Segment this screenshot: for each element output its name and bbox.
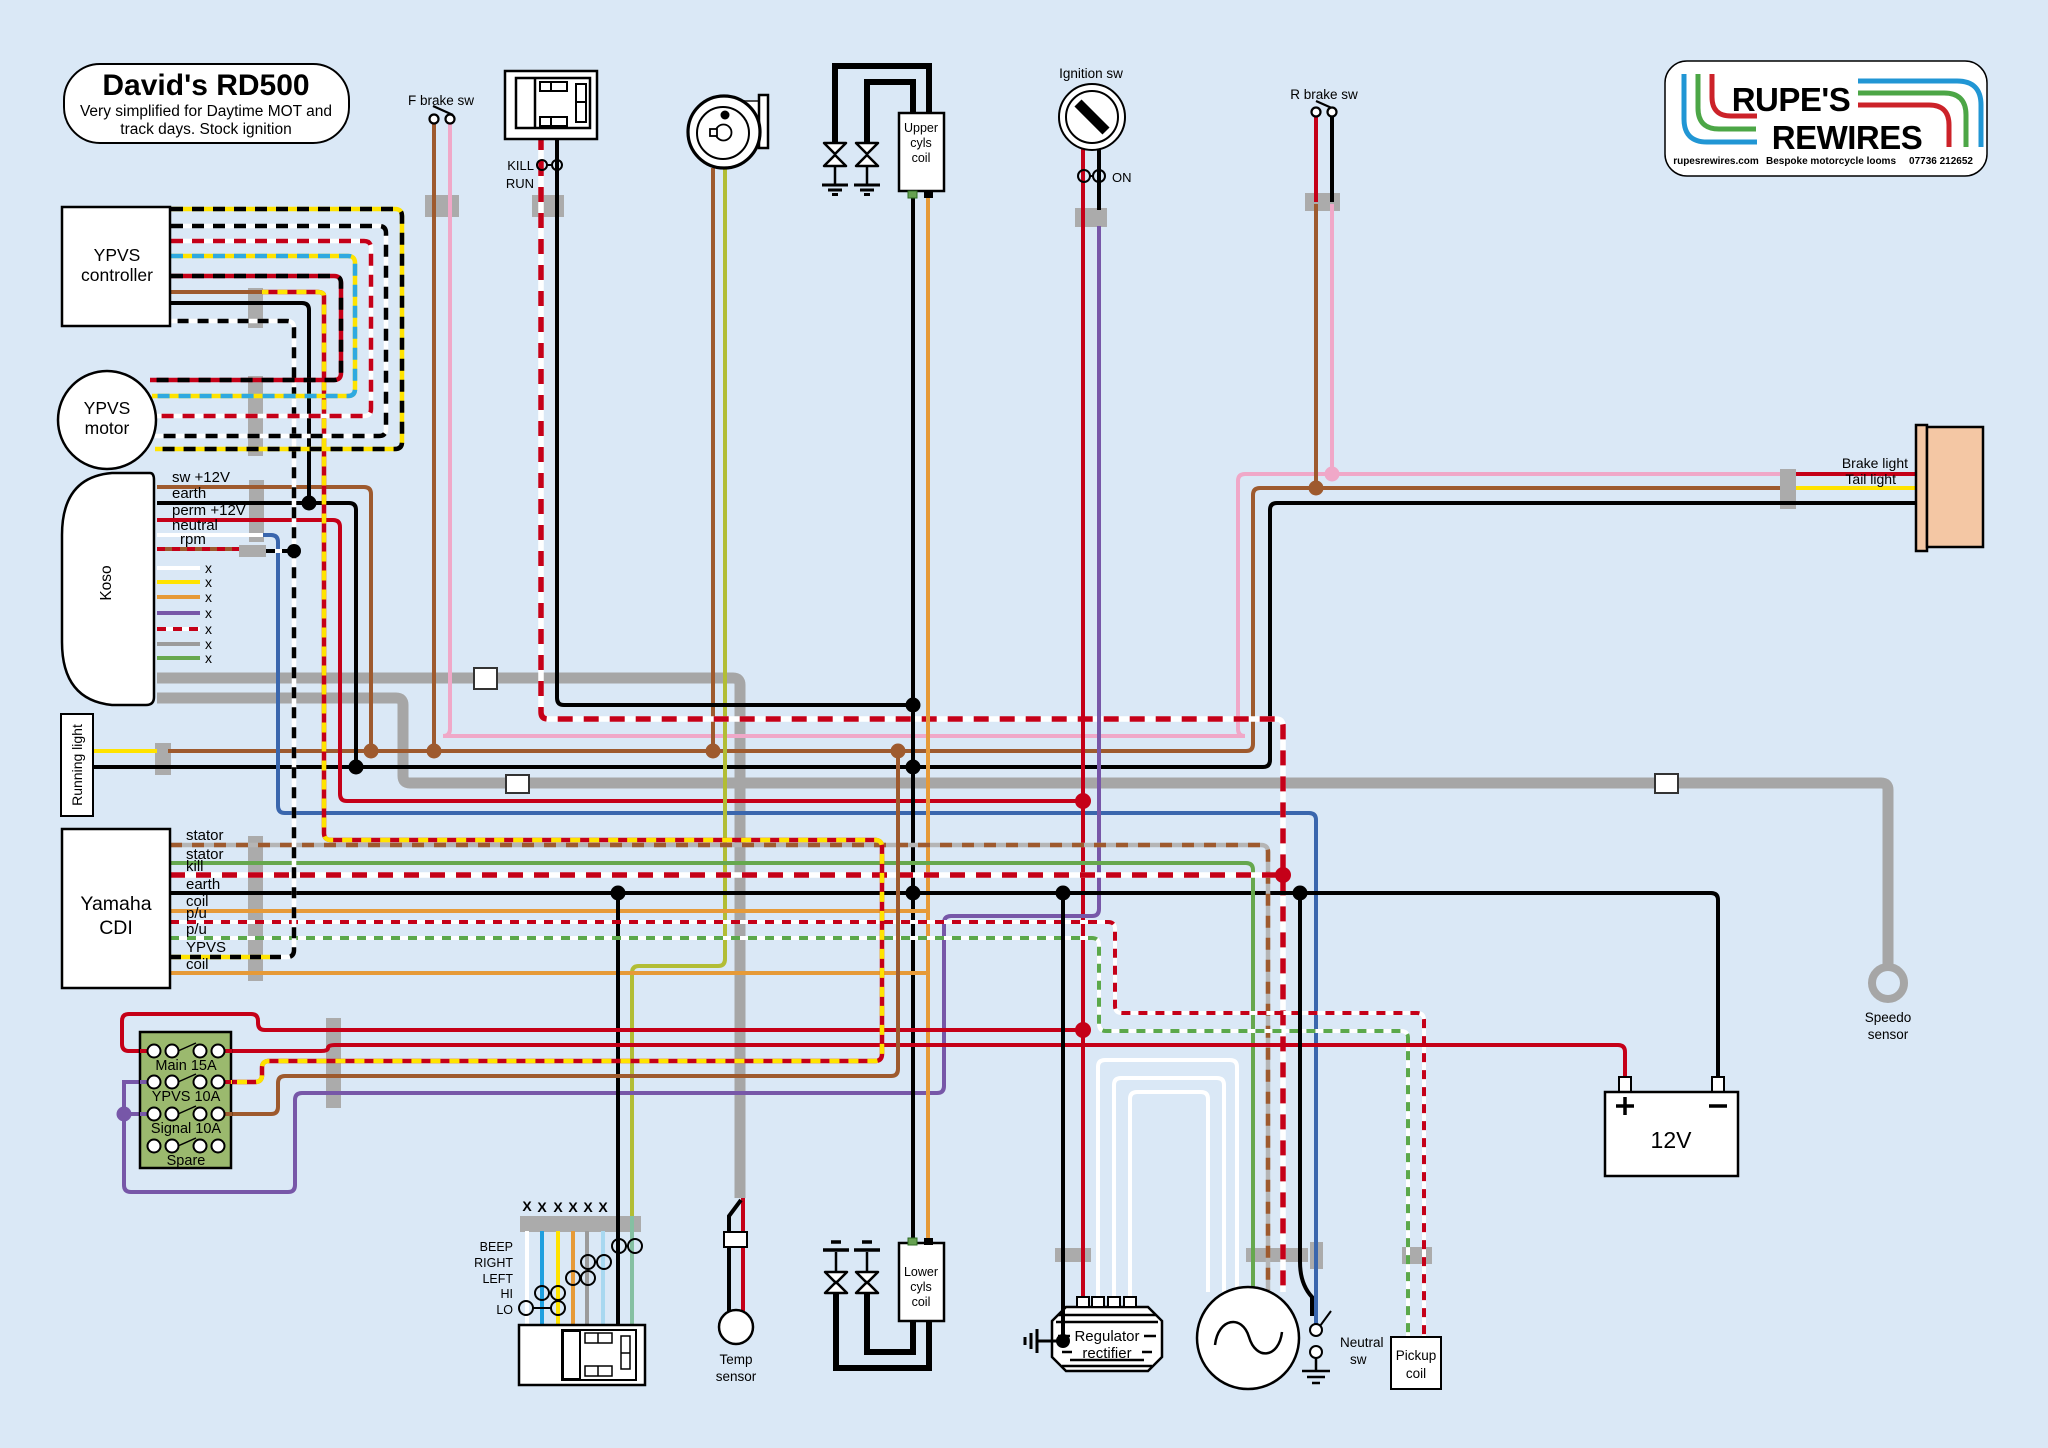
svg-text:YPVS: YPVS [94, 245, 141, 265]
wire YPVS bundle pin3 red/white [154, 241, 371, 416]
svg-text:Brake light: Brake light [1842, 455, 1908, 471]
junction red perm/ignition [1075, 793, 1091, 809]
Koso x labels [205, 560, 212, 666]
wire CDI YPVS black/yellow segment [170, 955, 270, 960]
svg-text:Main 15A: Main 15A [155, 1058, 217, 1074]
wire headlight yellow [556, 1231, 560, 1325]
svg-text:BEEP: BEEP [480, 1240, 513, 1254]
wire Koso neutral white stub [157, 533, 263, 537]
svg-text:Neutral: Neutral [1340, 1335, 1384, 1350]
svg-text:X: X [568, 1199, 578, 1215]
tachometer [735, 101, 762, 145]
junction purple fuse [117, 1107, 132, 1122]
junction brown x713 [706, 744, 721, 759]
wire purple stub signal fuse [124, 1112, 148, 1116]
connector fuse box outputs [326, 1018, 341, 1108]
wire fuse stubs overlay [140, 1049, 232, 1053]
svg-text:cyls: cyls [910, 136, 932, 150]
wire RUN black [557, 135, 913, 705]
wire alternator black [1300, 893, 1312, 1316]
KILL/RUN switch housing [505, 71, 597, 139]
svg-text:X: X [583, 1199, 593, 1215]
svg-text:12V: 12V [1651, 1127, 1693, 1153]
connector YPVS controller pins 6-8 [248, 288, 263, 328]
wire purple ignition to fuses [124, 226, 1099, 1192]
svg-text:rectifier: rectifier [1082, 1345, 1131, 1362]
wire neutral blue (Koso to neutral sw) [263, 535, 1316, 1326]
fuse box [140, 1032, 231, 1168]
title bubble [64, 64, 349, 143]
svg-text:RUN: RUN [506, 176, 534, 191]
svg-text:kill: kill [186, 858, 204, 875]
svg-text:x: x [205, 589, 212, 605]
wire regulator earth overlay [1061, 1307, 1065, 1341]
wire Koso perm+12V red [157, 520, 1083, 801]
junction black Koso earth x356 [349, 760, 364, 775]
lower cyls coil goalpost inner [867, 1291, 913, 1352]
wire Koso earth black [157, 503, 356, 767]
junction brown x898 [891, 744, 906, 759]
svg-text:X: X [598, 1199, 608, 1215]
svg-text:Yamaha: Yamaha [80, 893, 151, 915]
junction pink R brake [1325, 467, 1340, 482]
logo Rupe's Rewires [1665, 61, 1987, 176]
svg-text:LEFT: LEFT [482, 1272, 513, 1286]
wire Koso x stub red/white dashed [157, 627, 200, 631]
wire alternator white phase 1 [1098, 1060, 1237, 1300]
wire KILL red/white dashed (kill switch to alternator) [541, 135, 1283, 1292]
wire YPVS fuse red/yellow dashed (controller supply) [218, 292, 882, 1082]
pickup coil box [1391, 1337, 1441, 1389]
wire YPVS black/white dashed vertical (CDI to controller pin8) [171, 321, 294, 957]
wire headlight teal segment [630, 1216, 634, 1325]
wire CDI coil orange upper [170, 909, 928, 913]
svg-text:x: x [205, 621, 212, 637]
wire headlight gray [585, 1231, 589, 1325]
wire controller pin7 black [171, 303, 309, 503]
wire YPVS bundle pin5 red/black [150, 276, 341, 380]
upper ground right [854, 185, 880, 195]
svg-text:x: x [205, 574, 212, 590]
svg-text:sensor: sensor [716, 1369, 757, 1384]
wire running light black (tail light earth) [93, 503, 1916, 767]
wire thick gray speedo harness 1 (Koso to temp sensor) [157, 678, 740, 1198]
svg-text:coil: coil [186, 956, 209, 973]
upper cyls coil box [899, 113, 944, 191]
wire brown main feed (running light to tail light) [168, 488, 1780, 751]
junction black regulator ground [1056, 1334, 1070, 1348]
wire headlight blue [540, 1231, 544, 1325]
svg-text:rpm: rpm [180, 531, 206, 548]
junction black pin7 [302, 496, 317, 511]
wire Koso x stub yellow [157, 580, 200, 584]
wire coils orange vertical [926, 195, 930, 1240]
wire CDI p/u1 red/white dashed (to pickup coil) [170, 922, 1424, 1337]
connector KILL/RUN [532, 195, 564, 217]
junction black coil/running light [906, 760, 921, 775]
wire Koso sw+12V brown [157, 487, 371, 751]
svg-text:sw: sw [1350, 1352, 1367, 1367]
junction red kill/CDI [1275, 867, 1291, 883]
battery 12V [1619, 1077, 1631, 1093]
lower ground right [854, 1242, 880, 1250]
svg-text:Lower: Lower [904, 1265, 938, 1279]
svg-text:X: X [522, 1198, 532, 1214]
svg-text:David's RD500: David's RD500 [102, 69, 309, 102]
CDI pin labels [186, 827, 226, 973]
regulator rectifier [1052, 1307, 1162, 1371]
upper spark gap right [856, 143, 878, 166]
svg-text:KILL: KILL [507, 158, 534, 173]
tail light [1916, 425, 1927, 551]
svg-text:X: X [553, 1199, 563, 1215]
lower spark gap right [856, 1272, 878, 1293]
wire CDI p/u2 green/white dashed (to pickup coil) [170, 938, 1408, 1337]
upper cyls coil goalpost inner [867, 82, 913, 145]
wire temp sensor black [729, 1200, 741, 1312]
svg-text:Signal 10A: Signal 10A [151, 1121, 221, 1137]
svg-text:Bespoke motorcycle looms: Bespoke motorcycle looms [1766, 156, 1896, 167]
svg-text:x: x [205, 605, 212, 621]
wire tacho olive to headlight [632, 168, 725, 1231]
svg-text:Very simplified for Daytime MO: Very simplified for Daytime MOT and [80, 103, 332, 120]
connector alternator [1246, 1248, 1308, 1262]
wire alternator white phase 2 [1114, 1078, 1224, 1300]
junction brown R brake [1309, 481, 1324, 496]
headlight housing [519, 1325, 645, 1385]
wire tail brake red [1796, 472, 1916, 476]
connector tail light [1780, 469, 1796, 509]
svg-text:RIGHT: RIGHT [474, 1256, 513, 1270]
svg-text:YPVS: YPVS [84, 398, 131, 418]
wire headlight white [525, 1231, 529, 1325]
svg-text:coil: coil [912, 1295, 931, 1309]
connector Koso main pins [249, 480, 264, 542]
wire regulator black earth drop [1061, 893, 1065, 1341]
wire fuse main upper red (battery feed to ignition sw) [122, 1014, 1083, 1051]
wire Koso x stub white [157, 566, 200, 570]
wire Koso x stub orange [157, 595, 200, 599]
svg-text:rupesrewires.com: rupesrewires.com [1673, 156, 1759, 167]
lower cyls coil goalpost outer [836, 1291, 929, 1368]
connector R brake sw [1305, 193, 1340, 211]
wire ignition red main [1081, 148, 1085, 1300]
wire signal fuse brown [218, 751, 898, 1114]
wire R brake brown lower [1314, 204, 1318, 488]
svg-text:controller: controller [81, 265, 153, 285]
wire headlight orange [571, 1231, 575, 1325]
fuse Spare [148, 1140, 225, 1153]
svg-text:YPVS 10A: YPVS 10A [152, 1089, 221, 1105]
svg-text:YPVS: YPVS [186, 939, 226, 956]
svg-text:sensor: sensor [1868, 1027, 1909, 1042]
connector white on gray harness 2 right [1655, 774, 1678, 793]
upper spark gap left [824, 143, 846, 166]
alternator [1197, 1287, 1299, 1389]
connector running light [155, 743, 171, 775]
wire Koso x stub green [157, 656, 200, 660]
svg-text:earth: earth [172, 485, 206, 502]
wire CDI stator1 brown/gray dashed (to alternator) [170, 845, 1268, 1290]
wire ignition black stub [1097, 148, 1101, 210]
connector regulator [1055, 1248, 1091, 1262]
svg-text:REWIRES: REWIRES [1772, 119, 1923, 156]
wire YPVS bundle pin1 black/yellow [155, 209, 402, 449]
connector F brake sw [425, 195, 459, 217]
svg-text:CDI: CDI [99, 917, 133, 939]
wire CDI earth black main (to battery minus) [170, 893, 1718, 1077]
svg-text:earth: earth [186, 876, 220, 893]
wire R brake black upper [1330, 116, 1334, 202]
Yamaha CDI box [62, 829, 170, 988]
junction black earth regulator [1056, 886, 1071, 901]
wire headlight earth drop black [616, 893, 620, 1325]
svg-text:RUPE'S: RUPE'S [1732, 81, 1851, 118]
svg-text:x: x [205, 650, 212, 666]
junction brown x371 [364, 744, 379, 759]
junction black regulator earth [1056, 1334, 1070, 1348]
wire YPVS bundle pin4 cyan/yellow [152, 256, 355, 396]
wire rpm link black/white dashed [266, 549, 294, 553]
neutral switch [1310, 1324, 1322, 1336]
wire alternator white phase 3 [1130, 1092, 1208, 1300]
connector white on gray harness 2 left [506, 775, 529, 793]
lower spark gap left [825, 1272, 847, 1293]
ignition ON contacts [1078, 170, 1090, 182]
connector ignition sw [1075, 208, 1107, 227]
connector headlight bar [520, 1216, 641, 1232]
connector Yamaha CDI [248, 836, 263, 981]
junction brown x434 [427, 744, 442, 759]
junction black earth alternator [1293, 886, 1308, 901]
svg-text:coil: coil [912, 151, 931, 165]
wire R brake pink lower [1330, 204, 1334, 474]
junction black RUN/coil [906, 698, 921, 713]
YPVS controller box [62, 207, 170, 326]
wire tail yellow [1796, 486, 1916, 490]
wire Koso x stub gray [157, 642, 200, 646]
svg-text:Temp: Temp [719, 1352, 752, 1367]
wire controller pin6 brown stub [171, 290, 262, 294]
svg-text:Spare: Spare [167, 1153, 206, 1169]
upper coil stubs [908, 191, 917, 198]
connector pickup coil [1402, 1247, 1432, 1264]
wire Koso x stub purple [157, 611, 200, 615]
wire temp sensor red [741, 1198, 745, 1312]
connector neutral sw [1310, 1242, 1323, 1269]
lower coil stubs [908, 1238, 917, 1245]
svg-text:cyls: cyls [910, 1280, 932, 1294]
svg-text:HI: HI [501, 1287, 514, 1301]
svg-text:sw +12V: sw +12V [172, 469, 230, 486]
fuse Signal 10A [148, 1108, 225, 1121]
headlight X marks [522, 1198, 608, 1215]
wire CDI stator2 green (to alternator) [170, 863, 1253, 1292]
connector YPVS motor bundle [248, 376, 263, 456]
svg-text:Ignition sw: Ignition sw [1059, 66, 1123, 81]
wire thick gray speedo harness 2 (Koso to speedo sensor) [157, 698, 1888, 966]
svg-text:Koso: Koso [98, 565, 115, 600]
fuse YPVS 10A [148, 1076, 225, 1089]
wire Koso rpm stub brown/red [157, 547, 239, 551]
svg-text:track days. Stock ignition: track days. Stock ignition [120, 121, 291, 138]
fuse Main 15A [148, 1045, 225, 1058]
svg-text:Speedo: Speedo [1865, 1010, 1912, 1025]
lower ground left [823, 1242, 849, 1250]
wire F brake pink (to tail light brake feed) [443, 122, 1780, 736]
svg-text:Pickup: Pickup [1396, 1348, 1437, 1363]
connector Koso rpm [239, 545, 266, 557]
junction red fuse/ignition [1075, 1022, 1091, 1038]
speedo sensor [1872, 967, 1904, 999]
svg-text:LO: LO [496, 1303, 513, 1317]
wire coils black vertical [911, 195, 915, 1240]
svg-text:07736 212652: 07736 212652 [1909, 156, 1973, 167]
wire running light yellow [93, 749, 157, 753]
svg-text:Running light: Running light [69, 724, 85, 806]
lower cyls coil box [899, 1243, 944, 1321]
svg-text:coil: coil [1406, 1366, 1426, 1381]
wire CDI kill red/white dashed [170, 872, 1283, 878]
Koso unit [62, 473, 154, 705]
svg-text:p/u: p/u [186, 905, 207, 922]
svg-text:ON: ON [1112, 170, 1132, 185]
svg-text:R brake sw: R brake sw [1290, 87, 1358, 102]
junction black earth headlight [611, 886, 626, 901]
svg-text:X: X [537, 1199, 547, 1215]
regulator ground [1037, 1340, 1063, 1343]
regulator top pins [1077, 1297, 1089, 1307]
svg-text:Upper: Upper [904, 121, 938, 135]
Running light box [61, 714, 93, 816]
junction black rpm link [287, 544, 301, 558]
wire headlight light blue [601, 1231, 605, 1325]
wire R brake red upper [1314, 116, 1318, 202]
junction black earth coil [906, 886, 921, 901]
temp sensor [724, 1232, 747, 1247]
wire fuse main lower red (to battery +) [218, 1045, 1625, 1077]
svg-text:motor: motor [85, 418, 130, 438]
upper ground left [822, 185, 848, 195]
connector white on gray harness 1 [474, 668, 497, 689]
svg-text:F brake sw: F brake sw [408, 93, 474, 108]
wire YPVS bundle pin2 black/white [155, 226, 386, 436]
YPVS motor circle [58, 371, 156, 469]
wire F brake brown [432, 122, 436, 751]
upper cyls coil goalpost outer [835, 66, 929, 145]
svg-text:Regulator: Regulator [1074, 1328, 1139, 1345]
wire tacho brown [711, 168, 715, 751]
svg-text:p/u: p/u [186, 921, 207, 938]
svg-text:stator: stator [186, 827, 224, 844]
svg-text:Tail light: Tail light [1845, 471, 1896, 487]
wire CDI coil orange lower [170, 971, 928, 975]
